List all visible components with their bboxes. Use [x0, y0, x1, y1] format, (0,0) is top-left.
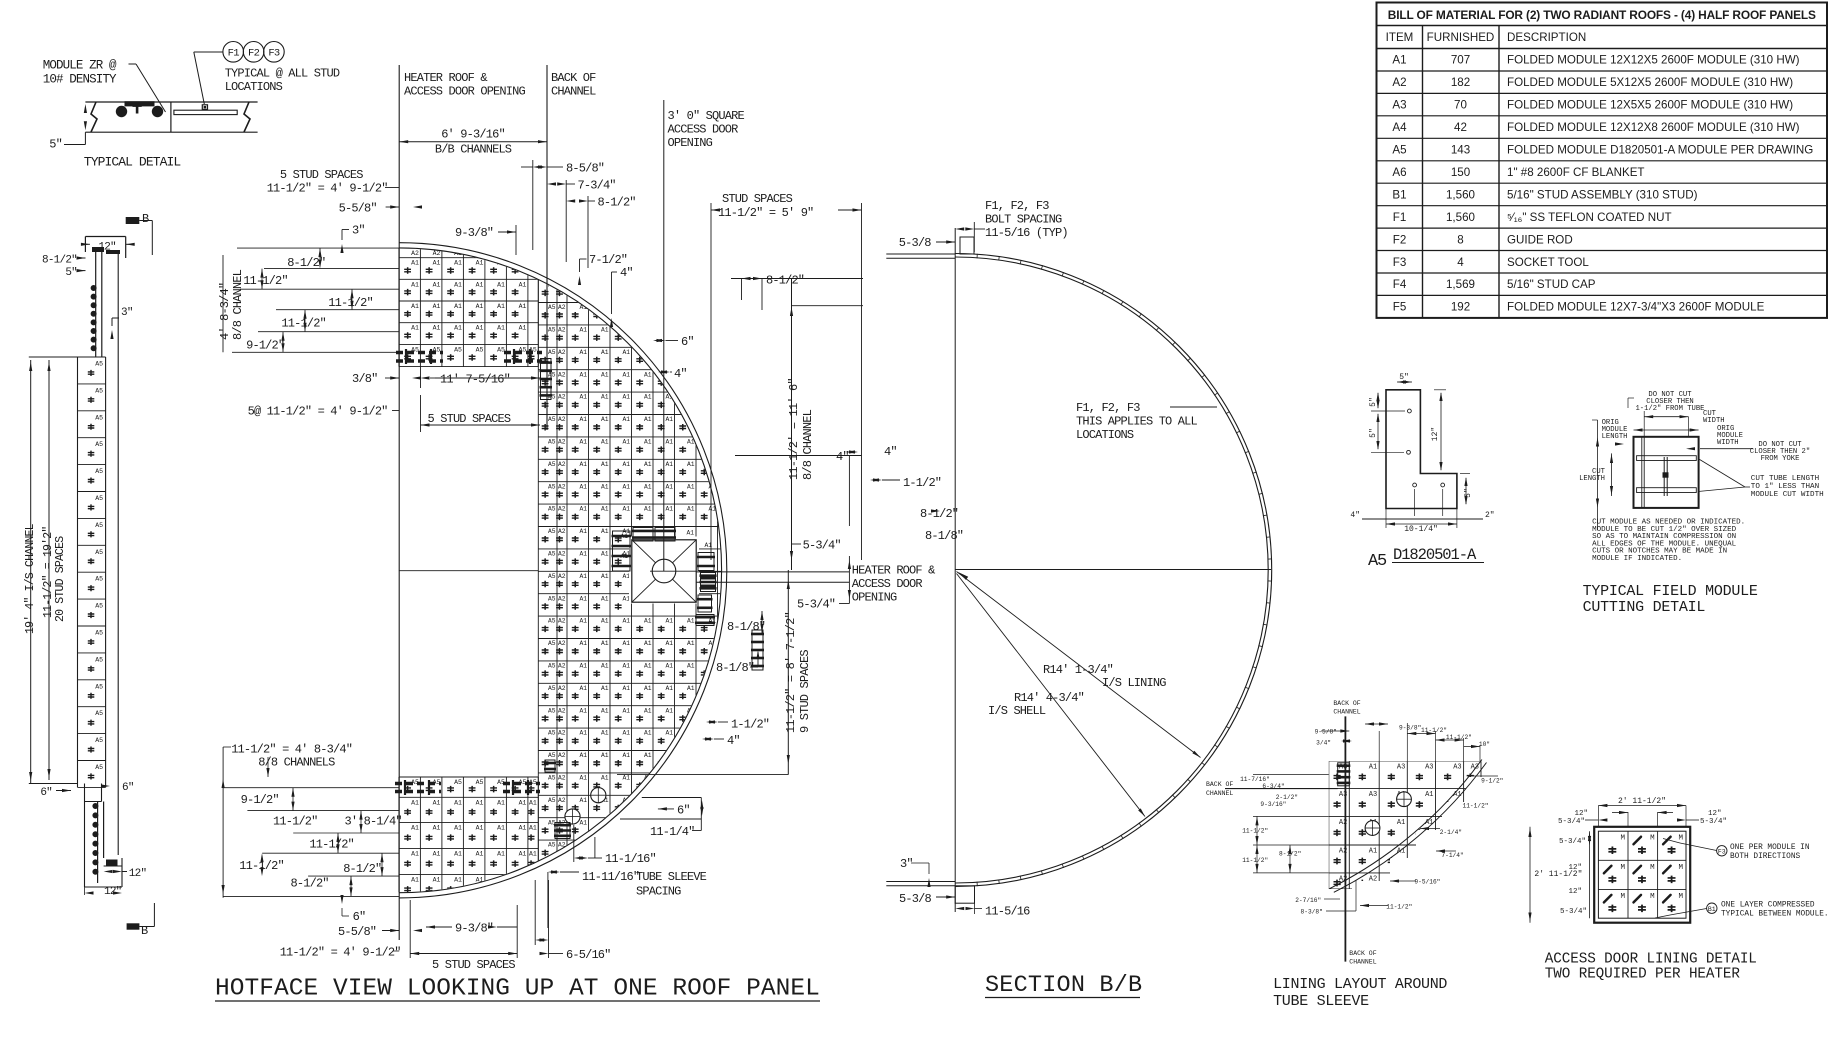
svg-text:LINING LAYOUT AROUND: LINING LAYOUT AROUND [1273, 976, 1447, 993]
svg-text:8/8 CHANNELS: 8/8 CHANNELS [258, 756, 335, 770]
svg-text:A2: A2 [558, 573, 566, 580]
svg-text:1-1/2″: 1-1/2″ [731, 718, 769, 732]
svg-text:LOCATIONS: LOCATIONS [225, 80, 283, 94]
svg-text:5/16" STUD CAP: 5/16" STUD CAP [1507, 278, 1596, 291]
svg-text:A1: A1 [601, 394, 609, 401]
svg-text:A1: A1 [601, 752, 609, 759]
svg-text:11-1/2″ = 4′ 9-1/2″: 11-1/2″ = 4′ 9-1/2″ [280, 946, 401, 960]
svg-text:A5: A5 [476, 779, 484, 786]
typical module detail (top left) [85, 101, 257, 103]
svg-text:D1820501-A: D1820501-A [1393, 546, 1477, 564]
svg-text:A1: A1 [476, 825, 484, 832]
svg-text:CHANNEL: CHANNEL [551, 85, 596, 99]
svg-text:A5: A5 [95, 522, 103, 529]
svg-text:4″: 4″ [884, 445, 897, 459]
svg-text:A1: A1 [497, 799, 505, 806]
svg-text:A1: A1 [622, 461, 630, 468]
svg-text:A1: A1 [665, 730, 673, 737]
svg-text:A2: A2 [558, 730, 566, 737]
svg-text:B1: B1 [1392, 188, 1406, 201]
svg-text:A1: A1 [529, 825, 537, 832]
svg-text:A1: A1 [665, 461, 673, 468]
svg-text:A1: A1 [687, 618, 695, 625]
svg-text:A1: A1 [601, 461, 609, 468]
svg-text:A5: A5 [548, 461, 556, 468]
svg-text:SOCKET TOOL: SOCKET TOOL [1507, 256, 1589, 269]
svg-text:A5: A5 [548, 595, 556, 602]
svg-text:MODULE CUT WIDTH: MODULE CUT WIDTH [1751, 491, 1824, 499]
svg-text:A1: A1 [411, 799, 419, 806]
svg-text:A5: A5 [548, 640, 556, 647]
svg-text:5-5/8″: 5-5/8″ [338, 925, 376, 939]
svg-text:R14′ 4-3/4″: R14′ 4-3/4″ [1014, 691, 1084, 705]
svg-text:A1: A1 [601, 775, 609, 782]
svg-text:SPACING: SPACING [636, 885, 681, 899]
section B/B semicircle [954, 228, 956, 912]
svg-text:5-3/4″: 5-3/4″ [803, 539, 841, 553]
svg-text:12″: 12″ [104, 886, 122, 898]
svg-text:A1: A1 [579, 797, 587, 804]
svg-text:19′ 4″ I/S CHANNEL: 19′ 4″ I/S CHANNEL [24, 523, 37, 634]
svg-text:A1: A1 [433, 325, 441, 332]
svg-text:OPENING: OPENING [668, 136, 713, 150]
svg-text:M: M [1620, 864, 1625, 872]
svg-text:11′ 7-5/16″: 11′ 7-5/16″ [440, 373, 510, 387]
svg-text:A1: A1 [579, 551, 587, 558]
svg-text:LOCATIONS: LOCATIONS [1076, 428, 1134, 442]
svg-text:A1: A1 [644, 416, 652, 423]
svg-text:ACCESS DOOR LINING DETAIL: ACCESS DOOR LINING DETAIL [1545, 952, 1757, 968]
svg-text:A1: A1 [476, 281, 484, 288]
svg-text:A1: A1 [686, 530, 694, 537]
svg-text:A5: A5 [548, 304, 556, 311]
svg-text:4″: 4″ [674, 367, 687, 381]
svg-text:A5: A5 [548, 685, 556, 692]
svg-text:A1: A1 [454, 825, 462, 832]
svg-text:A3: A3 [1392, 99, 1406, 112]
svg-text:11-11/16″: 11-11/16″ [582, 870, 639, 884]
svg-text:A1: A1 [411, 851, 419, 858]
svg-text:A1: A1 [497, 851, 505, 858]
svg-text:A5: A5 [548, 483, 556, 490]
svg-text:A1: A1 [620, 553, 628, 560]
svg-text:A1: A1 [601, 416, 609, 423]
svg-text:A5: A5 [497, 346, 505, 353]
svg-text:TO 1″ LESS THAN: TO 1″ LESS THAN [1751, 483, 1819, 491]
svg-text:A2: A2 [558, 394, 566, 401]
svg-text:2-1/2″: 2-1/2″ [1276, 794, 1298, 801]
svg-text:BACK OF: BACK OF [551, 71, 596, 85]
svg-text:11-1/2″: 11-1/2″ [273, 815, 318, 829]
svg-text:4″: 4″ [1350, 511, 1360, 520]
svg-text:A1: A1 [476, 260, 484, 267]
svg-text:A1: A1 [644, 439, 652, 446]
svg-text:143: 143 [1451, 144, 1470, 157]
svg-text:BACK OF: BACK OF [1206, 781, 1233, 788]
svg-text:A1: A1 [601, 551, 609, 558]
svg-text:3″: 3″ [121, 307, 133, 319]
svg-text:A1: A1 [644, 685, 652, 692]
svg-text:12″: 12″ [129, 868, 147, 880]
svg-text:A2: A2 [558, 461, 566, 468]
svg-text:CUT TUBE LENGTH: CUT TUBE LENGTH [1751, 475, 1819, 483]
svg-text:7-1/4″: 7-1/4″ [1441, 852, 1463, 859]
svg-text:6-3/4″: 6-3/4″ [1262, 783, 1284, 790]
svg-text:5-3/4″: 5-3/4″ [1560, 908, 1587, 916]
svg-text:WIDTH: WIDTH [1703, 417, 1725, 425]
svg-text:A2: A2 [558, 349, 566, 356]
svg-text:A5: A5 [548, 349, 556, 356]
svg-text:A1: A1 [579, 528, 587, 535]
svg-text:11-1/2″ = 5′ 9″: 11-1/2″ = 5′ 9″ [718, 206, 813, 220]
svg-text:A5: A5 [95, 737, 103, 744]
svg-text:9-3/16″: 9-3/16″ [1260, 801, 1286, 808]
svg-text:9-5/8″: 9-5/8″ [1315, 729, 1337, 736]
svg-text:A1: A1 [529, 851, 537, 858]
svg-text:11-1/16″: 11-1/16″ [605, 852, 656, 866]
svg-text:A5: A5 [548, 730, 556, 737]
svg-text:CHANNEL: CHANNEL [1206, 790, 1233, 797]
svg-text:A2: A2 [558, 506, 566, 513]
svg-text:5-3/4″: 5-3/4″ [797, 598, 835, 612]
svg-text:42: 42 [1454, 121, 1467, 134]
svg-text:9-1/2″: 9-1/2″ [246, 339, 284, 353]
svg-text:11-7/16″: 11-7/16″ [1240, 776, 1270, 783]
svg-text:M: M [1620, 893, 1625, 901]
svg-text:A5: A5 [454, 346, 462, 353]
svg-text:8-1/8″: 8-1/8″ [925, 529, 963, 543]
svg-text:A5: A5 [548, 371, 556, 378]
svg-text:A5: A5 [548, 506, 556, 513]
svg-text:A1: A1 [644, 730, 652, 737]
svg-text:F3: F3 [1393, 256, 1407, 269]
svg-text:A1: A1 [687, 506, 695, 513]
svg-text:A1: A1 [601, 707, 609, 714]
svg-text:A1: A1 [579, 327, 587, 334]
svg-text:11-1/2″: 11-1/2″ [1463, 803, 1489, 810]
left channel elevation detail [126, 217, 140, 224]
svg-text:CHANNEL: CHANNEL [1333, 709, 1360, 716]
svg-text:A2: A2 [558, 595, 566, 602]
svg-text:A5: A5 [454, 779, 462, 786]
svg-text:FOLDED MODULE 12X12X5 2600F MO: FOLDED MODULE 12X12X5 2600F MODULE (310 … [1507, 54, 1800, 67]
svg-text:A1: A1 [579, 775, 587, 782]
svg-text:9-3/8″: 9-3/8″ [455, 226, 493, 240]
svg-text:A3: A3 [1453, 764, 1461, 772]
svg-text:A1: A1 [579, 663, 587, 670]
svg-text:A2: A2 [433, 250, 441, 257]
svg-text:F1: F1 [1393, 211, 1407, 224]
svg-text:4″: 4″ [727, 734, 740, 748]
svg-text:A1: A1 [579, 439, 587, 446]
svg-text:A1: A1 [644, 461, 652, 468]
svg-text:A1: A1 [622, 775, 630, 782]
svg-text:A1: A1 [687, 461, 695, 468]
svg-text:F1: F1 [228, 48, 240, 60]
svg-text:5″: 5″ [1369, 428, 1378, 438]
svg-text:A1: A1 [579, 416, 587, 423]
svg-text:A2: A2 [558, 797, 566, 804]
svg-text:11-1/2′ = 11′ 6″: 11-1/2′ = 11′ 6″ [787, 378, 801, 480]
svg-text:A5: A5 [548, 775, 556, 782]
svg-text:A2: A2 [558, 304, 566, 311]
svg-text:DESCRIPTION: DESCRIPTION [1507, 31, 1586, 44]
svg-text:A1: A1 [644, 640, 652, 647]
svg-text:ITEM: ITEM [1386, 31, 1414, 44]
svg-text:A2: A2 [558, 551, 566, 558]
svg-text:A1: A1 [529, 799, 537, 806]
svg-text:8/8 CHANNEL: 8/8 CHANNEL [801, 409, 815, 480]
svg-text:11-1/2″: 11-1/2″ [1242, 828, 1268, 835]
svg-text:A1: A1 [622, 416, 630, 423]
svg-text:A1: A1 [519, 851, 527, 858]
svg-text:THIS APPLIES TO ALL: THIS APPLIES TO ALL [1076, 415, 1198, 429]
svg-text:9-3/8″: 9-3/8″ [1399, 725, 1421, 732]
svg-text:11-1/2″: 11-1/2″ [309, 838, 354, 852]
svg-text:FOLDED MODULE 12X7-3/4"X3 2600: FOLDED MODULE 12X7-3/4"X3 2600F MODULE [1507, 301, 1765, 314]
svg-text:5 STUD SPACES: 5 STUD SPACES [428, 412, 511, 426]
svg-text:A5: A5 [476, 346, 484, 353]
svg-text:5/16" STUD ASSEMBLY (310 STUD): 5/16" STUD ASSEMBLY (310 STUD) [1507, 188, 1698, 201]
svg-text:5-3/8: 5-3/8 [899, 892, 931, 906]
svg-text:5-3/8: 5-3/8 [899, 236, 931, 250]
svg-text:8-5/8″: 8-5/8″ [566, 162, 604, 176]
svg-text:A5: A5 [548, 416, 556, 423]
svg-text:707: 707 [1451, 54, 1470, 67]
svg-text:A1: A1 [622, 663, 630, 670]
svg-text:SECTION B/B: SECTION B/B [985, 972, 1142, 999]
svg-text:11-1/2″ = 8′ 7-1/2″: 11-1/2″ = 8′ 7-1/2″ [784, 612, 798, 733]
svg-text:A1: A1 [579, 483, 587, 490]
svg-text:A1: A1 [1397, 819, 1405, 827]
svg-text:A5: A5 [95, 710, 103, 717]
svg-text:A2: A2 [1392, 76, 1406, 89]
svg-text:A1: A1 [644, 394, 652, 401]
svg-text:A1: A1 [579, 618, 587, 625]
svg-text:A3: A3 [1369, 791, 1377, 799]
svg-text:BILL OF MATERIAL FOR (2) TWO R: BILL OF MATERIAL FOR (2) TWO RADIANT ROO… [1388, 8, 1816, 22]
svg-text:A1: A1 [454, 303, 462, 310]
svg-text:A1: A1 [519, 281, 527, 288]
svg-text:A1: A1 [601, 618, 609, 625]
svg-text:A2: A2 [558, 640, 566, 647]
svg-text:A1: A1 [601, 349, 609, 356]
svg-text:A1: A1 [665, 618, 673, 625]
svg-text:BOLT SPACING: BOLT SPACING [985, 213, 1062, 227]
svg-text:F4: F4 [1393, 278, 1407, 291]
svg-text:A1: A1 [622, 752, 630, 759]
svg-text:A1: A1 [601, 595, 609, 602]
svg-text:A3: A3 [1425, 764, 1433, 772]
svg-text:LENGTH: LENGTH [1602, 433, 1628, 441]
svg-text:FURNISHED: FURNISHED [1427, 31, 1495, 44]
svg-text:A1: A1 [601, 730, 609, 737]
svg-text:A2: A2 [558, 483, 566, 490]
svg-text:A1: A1 [454, 877, 462, 884]
svg-text:11-5/16 (TYP): 11-5/16 (TYP) [985, 226, 1068, 240]
svg-text:A1: A1 [519, 799, 527, 806]
svg-text:A1: A1 [620, 533, 628, 540]
svg-text:F1, F2, F3: F1, F2, F3 [985, 199, 1049, 213]
svg-text:A2: A2 [558, 528, 566, 535]
svg-text:A1: A1 [622, 685, 630, 692]
svg-text:A1: A1 [622, 707, 630, 714]
svg-text:FOLDED MODULE 12X5X5 2600F MOD: FOLDED MODULE 12X5X5 2600F MODULE (310 H… [1507, 99, 1793, 112]
svg-text:A1: A1 [433, 303, 441, 310]
svg-text:A2: A2 [558, 618, 566, 625]
svg-text:A5: A5 [95, 441, 103, 448]
svg-text:TYPICAL @ ALL STUD: TYPICAL @ ALL STUD [225, 67, 340, 81]
svg-text:A1: A1 [476, 799, 484, 806]
svg-text:A1: A1 [433, 877, 441, 884]
svg-text:11-1/2″: 11-1/2″ [1242, 857, 1268, 864]
svg-text:10# DENSITY: 10# DENSITY [43, 73, 117, 87]
svg-text:8-3/8″: 8-3/8″ [1301, 909, 1323, 916]
svg-text:A1: A1 [687, 663, 695, 670]
svg-text:A2: A2 [558, 327, 566, 334]
svg-text:A1: A1 [411, 825, 419, 832]
svg-text:A5: A5 [95, 764, 103, 771]
svg-text:A5: A5 [95, 656, 103, 663]
svg-text:5-3/4″: 5-3/4″ [1559, 838, 1586, 846]
A5 module D1820501-A detail [1386, 390, 1457, 509]
svg-text:182: 182 [1451, 76, 1470, 89]
svg-text:8-1/8″: 8-1/8″ [727, 620, 765, 634]
svg-text:ACCESS DOOR: ACCESS DOOR [668, 123, 739, 137]
bill of materials table [1377, 3, 1828, 318]
svg-text:A1: A1 [665, 506, 673, 513]
svg-text:MODULE ZR @: MODULE ZR @ [43, 59, 117, 73]
svg-text:A1: A1 [519, 303, 527, 310]
svg-text:A5: A5 [548, 573, 556, 580]
svg-text:HEATER ROOF &: HEATER ROOF & [852, 564, 935, 578]
svg-text:A1: A1 [644, 752, 652, 759]
svg-text:A1: A1 [1369, 848, 1377, 856]
svg-text:A1: A1 [579, 461, 587, 468]
svg-text:A1: A1 [579, 640, 587, 647]
svg-text:A5: A5 [548, 842, 556, 849]
svg-text:A1: A1 [411, 303, 419, 310]
svg-text:A5: A5 [548, 707, 556, 714]
svg-text:A1: A1 [622, 640, 630, 647]
svg-text:M: M [1678, 835, 1683, 843]
svg-text:4: 4 [1457, 256, 1464, 269]
svg-text:2′ 11-1/2″: 2′ 11-1/2″ [1534, 870, 1582, 879]
svg-text:A5: A5 [95, 549, 103, 556]
svg-text:11-1/2″: 11-1/2″ [1446, 734, 1472, 741]
svg-text:A1: A1 [622, 730, 630, 737]
svg-text:A1: A1 [601, 685, 609, 692]
svg-text:5-3/4″: 5-3/4″ [1700, 818, 1727, 826]
svg-text:6″: 6″ [353, 910, 366, 924]
svg-text:A1: A1 [601, 573, 609, 580]
svg-text:A1: A1 [579, 707, 587, 714]
svg-text:A2: A2 [558, 439, 566, 446]
svg-text:A5: A5 [1368, 552, 1387, 571]
svg-text:FROM YOKE: FROM YOKE [1761, 455, 1800, 463]
svg-text:A1: A1 [497, 303, 505, 310]
svg-text:5-5/8″: 5-5/8″ [339, 202, 377, 216]
svg-text:A1: A1 [476, 851, 484, 858]
svg-text:F5: F5 [1393, 301, 1407, 314]
svg-text:A1: A1 [454, 799, 462, 806]
svg-text:A1: A1 [601, 327, 609, 334]
svg-text:A1: A1 [665, 707, 673, 714]
svg-text:A2: A2 [558, 752, 566, 759]
svg-text:A1: A1 [519, 825, 527, 832]
svg-text:11-1/4″: 11-1/4″ [650, 825, 695, 839]
svg-text:M: M [1678, 864, 1683, 872]
svg-text:8-1/2″: 8-1/2″ [42, 255, 77, 267]
svg-text:A1: A1 [433, 851, 441, 858]
svg-text:OPENING: OPENING [852, 591, 897, 605]
svg-text:A1: A1 [579, 752, 587, 759]
svg-text:ACCESS DOOR OPENING: ACCESS DOOR OPENING [404, 85, 526, 99]
svg-text:A1: A1 [687, 640, 695, 647]
svg-text:GUIDE ROD: GUIDE ROD [1507, 233, 1573, 246]
svg-text:A1: A1 [1425, 791, 1433, 799]
svg-text:5″: 5″ [49, 138, 62, 152]
svg-text:8-1/2″: 8-1/2″ [920, 507, 958, 521]
svg-text:8-1/2″: 8-1/2″ [291, 877, 329, 891]
svg-text:5″: 5″ [1464, 488, 1473, 498]
svg-text:A1: A1 [579, 730, 587, 737]
svg-text:FOLDED MODULE D1820501-A MODUL: FOLDED MODULE D1820501-A MODULE PER DRAW… [1507, 144, 1813, 157]
svg-text:12″: 12″ [1568, 888, 1582, 896]
svg-text:M: M [1650, 893, 1655, 901]
svg-text:FOLDED MODULE 5X12X5 2600F MOD: FOLDED MODULE 5X12X5 2600F MODULE (310 H… [1507, 76, 1793, 89]
svg-text:9-1/2″: 9-1/2″ [241, 793, 279, 807]
svg-text:A1: A1 [454, 281, 462, 288]
svg-text:A1: A1 [497, 281, 505, 288]
svg-text:WIDTH: WIDTH [1717, 439, 1739, 447]
svg-text:BACK OF: BACK OF [1333, 700, 1360, 707]
svg-text:A5: A5 [548, 752, 556, 759]
svg-text:A1: A1 [622, 394, 630, 401]
svg-text:A1: A1 [579, 595, 587, 602]
svg-text:A1: A1 [579, 685, 587, 692]
svg-text:11-1/2″: 11-1/2″ [1386, 904, 1412, 911]
svg-text:12″: 12″ [1708, 810, 1722, 818]
svg-text:A1: A1 [579, 819, 587, 826]
svg-text:⁵⁄₁₆" SS TEFLON COATED NUT: ⁵⁄₁₆" SS TEFLON COATED NUT [1507, 211, 1672, 224]
svg-text:A1: A1 [687, 685, 695, 692]
svg-text:11-1/2″ = 4′ 9-1/2″: 11-1/2″ = 4′ 9-1/2″ [267, 182, 388, 196]
svg-text:ONE LAYER COMPRESSED: ONE LAYER COMPRESSED [1721, 902, 1815, 910]
svg-text:6″: 6″ [40, 787, 52, 799]
svg-text:150: 150 [1451, 166, 1470, 179]
svg-text:A5: A5 [548, 797, 556, 804]
svg-text:A3: A3 [1397, 764, 1405, 772]
svg-text:ONE PER MODULE IN: ONE PER MODULE IN [1730, 844, 1810, 852]
svg-text:B1: B1 [1708, 906, 1716, 913]
svg-text:6″: 6″ [681, 335, 694, 349]
svg-text:11-5/16: 11-5/16 [985, 905, 1030, 919]
svg-text:8/8 CHANNEL: 8/8 CHANNEL [231, 269, 245, 340]
svg-text:A5: A5 [548, 439, 556, 446]
svg-text:1" #8 2600F CF BLANKET: 1" #8 2600F CF BLANKET [1507, 166, 1645, 179]
svg-text:A1: A1 [433, 260, 441, 267]
svg-text:A1: A1 [433, 799, 441, 806]
svg-text:A5: A5 [95, 630, 103, 637]
access door lining detail [1594, 827, 1690, 923]
svg-text:M: M [1650, 835, 1655, 843]
svg-text:A1: A1 [665, 640, 673, 647]
svg-text:8-1/8″: 8-1/8″ [716, 661, 754, 675]
svg-text:A1: A1 [644, 618, 652, 625]
svg-text:10-1/4″: 10-1/4″ [1404, 525, 1438, 534]
svg-text:A1: A1 [622, 371, 630, 378]
